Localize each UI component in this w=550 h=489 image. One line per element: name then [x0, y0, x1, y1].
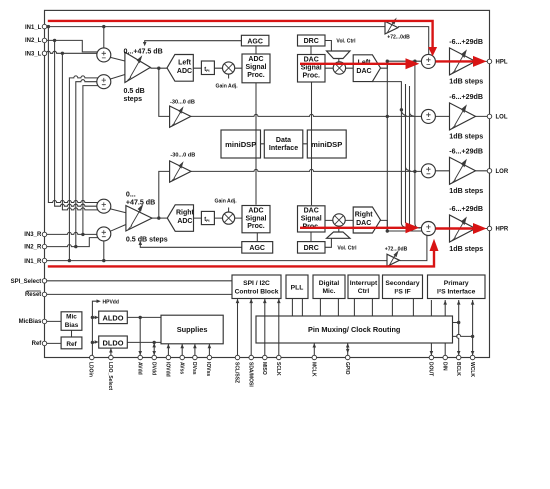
svg-text:Ctrl: Ctrl [358, 288, 370, 295]
svg-text:BCLK: BCLK [455, 362, 461, 376]
svg-text:1dB steps: 1dB steps [449, 133, 483, 141]
svg-text:0...+47.5 dB: 0...+47.5 dB [124, 48, 163, 56]
svg-text:AGC: AGC [249, 245, 265, 252]
svg-text:miniDSP: miniDSP [225, 140, 256, 149]
svg-text:steps: steps [124, 95, 143, 103]
svg-text:DAC: DAC [356, 68, 371, 75]
svg-text:1dB steps: 1dB steps [449, 78, 483, 86]
svg-text:DOUT: DOUT [428, 362, 434, 376]
svg-text:SCLK: SCLK [275, 362, 281, 376]
svg-text:+72...0dB: +72...0dB [387, 35, 410, 41]
svg-text:IOVss: IOVss [205, 362, 211, 376]
svg-text:ADC: ADC [177, 218, 192, 225]
svg-text:Right: Right [355, 211, 374, 218]
svg-text:IN1_L: IN1_L [25, 25, 42, 31]
svg-text:Signal: Signal [245, 64, 266, 71]
svg-text:IOVdd: IOVdd [165, 362, 171, 377]
svg-text:Data: Data [276, 137, 291, 144]
svg-text:ADC: ADC [248, 56, 263, 63]
svg-text:Mic.: Mic. [322, 288, 335, 295]
svg-text:Mic: Mic [66, 314, 77, 321]
svg-text:Digital: Digital [319, 280, 340, 287]
svg-text:Signal: Signal [245, 215, 266, 222]
svg-text:Primary: Primary [444, 280, 469, 287]
svg-text:Ref: Ref [66, 341, 77, 348]
svg-text:Secondary: Secondary [385, 280, 419, 287]
svg-text:DAC: DAC [304, 57, 319, 64]
svg-text:I²S IF: I²S IF [394, 289, 410, 296]
svg-text:Interface: Interface [269, 145, 298, 152]
svg-text:Signal: Signal [301, 65, 322, 72]
svg-text:AGC: AGC [247, 38, 263, 45]
svg-text:+47.5 dB: +47.5 dB [126, 198, 155, 206]
svg-text:HPL: HPL [496, 60, 508, 66]
svg-text:MCLK: MCLK [311, 362, 317, 377]
svg-text:ADC: ADC [177, 68, 192, 75]
svg-text:IN1_R: IN1_R [24, 259, 42, 265]
svg-text:AVdd: AVdd [136, 362, 142, 375]
svg-text:Bias: Bias [65, 322, 79, 329]
svg-text:0...: 0... [126, 190, 136, 198]
svg-text:-6...+29dB: -6...+29dB [449, 205, 483, 213]
svg-text:Gain Adj.: Gain Adj. [215, 199, 238, 205]
svg-text:HPVdd: HPVdd [103, 300, 119, 306]
svg-text:ADC: ADC [248, 207, 263, 214]
svg-text:Ref: Ref [32, 341, 43, 347]
svg-text:I²S Interface: I²S Interface [437, 289, 476, 296]
svg-text:DRC: DRC [304, 38, 319, 45]
svg-text:miniDSP: miniDSP [311, 140, 342, 149]
svg-text:-6...+29dB: -6...+29dB [449, 148, 483, 156]
svg-text:Gain Adj.: Gain Adj. [216, 83, 239, 89]
svg-text:SCL/SSZ: SCL/SSZ [234, 362, 240, 383]
svg-text:0.5 dB steps: 0.5 dB steps [126, 235, 168, 243]
svg-text:IN2_L: IN2_L [25, 38, 42, 44]
svg-text:Proc.: Proc. [302, 73, 320, 80]
svg-text:Supplies: Supplies [177, 325, 208, 334]
svg-text:AVss: AVss [178, 362, 184, 374]
svg-text:DIN: DIN [441, 362, 447, 371]
svg-text:LDO_Select: LDO_Select [107, 362, 113, 390]
svg-text:MISO: MISO [261, 362, 267, 375]
svg-text:DVss: DVss [191, 362, 197, 375]
svg-text:-6...+29dB: -6...+29dB [449, 93, 483, 101]
svg-text:PLL: PLL [291, 284, 304, 291]
svg-text:WCLK: WCLK [469, 362, 475, 377]
svg-text:IN3_L: IN3_L [25, 51, 42, 57]
svg-text:1dB steps: 1dB steps [449, 187, 483, 195]
svg-text:-30...0 dB: -30...0 dB [170, 99, 195, 105]
svg-text:MicBias: MicBias [19, 319, 42, 325]
svg-text:Right: Right [176, 210, 195, 217]
svg-text:Vol. Ctrl: Vol. Ctrl [337, 246, 357, 252]
svg-text:LOR: LOR [496, 169, 509, 175]
svg-text:DRC: DRC [304, 245, 319, 252]
svg-text:Reset: Reset [25, 292, 41, 298]
svg-text:1dB steps: 1dB steps [449, 245, 483, 253]
svg-text:Proc.: Proc. [247, 72, 265, 79]
svg-text:LDOin: LDOin [88, 362, 94, 377]
svg-text:Control Block: Control Block [235, 288, 279, 295]
svg-text:Pin Muxing/ Clock Routing: Pin Muxing/ Clock Routing [308, 325, 400, 334]
svg-text:DAC: DAC [356, 220, 371, 227]
svg-text:SPI / I2C: SPI / I2C [243, 280, 270, 287]
svg-text:LOL: LOL [496, 115, 508, 121]
svg-text:IN2_R: IN2_R [24, 245, 42, 251]
svg-text:ALDO: ALDO [103, 314, 124, 323]
svg-text:SDA/MOSI: SDA/MOSI [247, 362, 253, 387]
svg-text:IN3_R: IN3_R [24, 232, 42, 238]
svg-text:Left: Left [178, 59, 192, 66]
svg-text:+72...0dB: +72...0dB [385, 247, 408, 253]
svg-text:DVdd: DVdd [150, 362, 156, 375]
svg-text:DAC: DAC [304, 208, 319, 215]
svg-text:DLDO: DLDO [103, 338, 124, 347]
svg-text:-30...0 dB: -30...0 dB [170, 153, 195, 159]
svg-text:0.5 dB: 0.5 dB [124, 87, 145, 95]
svg-text:SPI_Select: SPI_Select [11, 279, 42, 285]
svg-text:Proc.: Proc. [247, 223, 265, 230]
svg-text:HPR: HPR [496, 227, 509, 233]
svg-text:-6...+29dB: -6...+29dB [449, 38, 483, 46]
svg-text:GPIO: GPIO [344, 362, 350, 375]
svg-text:Signal: Signal [301, 216, 322, 223]
svg-text:Interrupt: Interrupt [350, 280, 378, 287]
svg-text:Vol. Ctrl: Vol. Ctrl [336, 39, 356, 45]
